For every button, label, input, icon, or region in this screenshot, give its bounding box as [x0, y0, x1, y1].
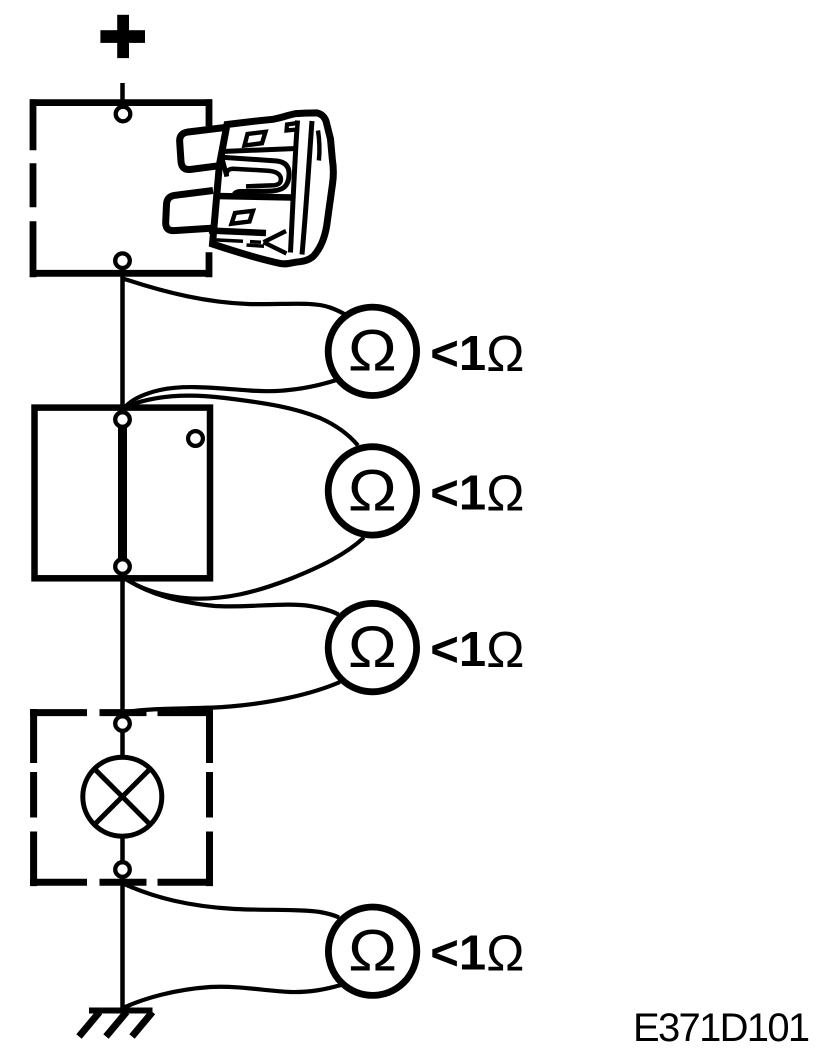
fuse divider upper [222, 149, 296, 152]
wire lamp box bottom to ground [120, 876, 125, 1011]
wire lamp top terminal to lamp [120, 731, 125, 759]
fuse illustration [166, 113, 334, 264]
terminal circle fuse bottom [115, 253, 130, 268]
svg-text:<1: <1 [430, 927, 486, 981]
middle box internal bar [118, 419, 127, 567]
wire middle box bottom to lamp box top [120, 573, 125, 717]
middle solid box (switch/connector) [35, 408, 211, 579]
ohmmeter M3 [328, 603, 416, 691]
fuse end cap inner highlight [318, 131, 319, 161]
lamp dashed box [30, 709, 213, 886]
wire lamp to lamp bottom terminal [120, 834, 125, 863]
fuse front/side boundary line [291, 121, 298, 253]
meter lead curves [123, 279, 364, 1008]
lead M2 bottom: meter2 to mid box bottom junction [124, 538, 365, 599]
svg-text:Ω: Ω [348, 615, 397, 680]
terminal circle middle box top [115, 412, 130, 427]
svg-text:Ω: Ω [486, 464, 524, 521]
wire fuse box bottom to middle box top [120, 268, 125, 413]
lead M3 top: mid box bottom junction to meter3 [124, 578, 339, 615]
svg-text:Ω: Ω [486, 925, 524, 982]
fuse bottom band line [209, 231, 266, 234]
terminal circle lamp top [115, 716, 130, 731]
terminal circle lamp bottom [115, 862, 130, 877]
middle box aux contact circle [188, 431, 203, 446]
svg-text:Ω: Ω [486, 621, 524, 678]
lead M4 bottom: meter4 to ground junction [124, 985, 341, 1008]
ohmmeter M4 [328, 907, 416, 995]
svg-text:Ω: Ω [348, 319, 397, 384]
lead M2 top: mid box top junction to meter2 [123, 396, 358, 446]
fuse blade upper [180, 127, 231, 170]
fuse mark lower [232, 211, 254, 224]
fuse holder dashed box [30, 99, 212, 277]
fuse divider lower [216, 196, 292, 198]
svg-text:<1: <1 [430, 327, 486, 381]
fuse end cap line [302, 121, 312, 255]
svg-text:Ω: Ω [348, 459, 397, 524]
lead M4 top: lamp bottom junction to meter4 [123, 884, 339, 918]
ground symbol [79, 1011, 153, 1037]
svg-text:E371D101: E371D101 [633, 1006, 809, 1050]
fuse bottom wedge lines [264, 231, 287, 254]
ohmmeter M2 [328, 447, 416, 535]
fuse body silhouette [213, 113, 334, 264]
fuse top notch [287, 123, 298, 131]
ohmmeter M1 [328, 307, 416, 395]
terminal circle middle box bottom [115, 559, 130, 574]
fuse element left hook [222, 157, 227, 176]
lead M1 top: fuse bottom junction to meter1 [123, 279, 345, 315]
fuse blade lower [166, 191, 215, 231]
fuse element outer curve [222, 157, 290, 196]
wire from plus to fuse box [120, 83, 125, 108]
lamp X [94, 769, 150, 825]
fuse element inner curve [227, 169, 281, 187]
svg-text:Ω: Ω [486, 325, 524, 382]
battery positive terminal symbol [100, 15, 145, 58]
lead M3 bottom: meter3 to lamp top junction [123, 682, 340, 713]
svg-text:<1: <1 [430, 623, 486, 677]
lamp symbol circle [83, 757, 162, 836]
svg-text:<1: <1 [430, 466, 486, 520]
svg-text:Ω: Ω [348, 919, 397, 984]
terminal circle fuse top [116, 107, 131, 122]
lead M1 bottom: meter1 to mid box top junction [124, 380, 337, 409]
fuse bottom dashes [213, 240, 265, 247]
fuse mark upper [245, 132, 266, 146]
